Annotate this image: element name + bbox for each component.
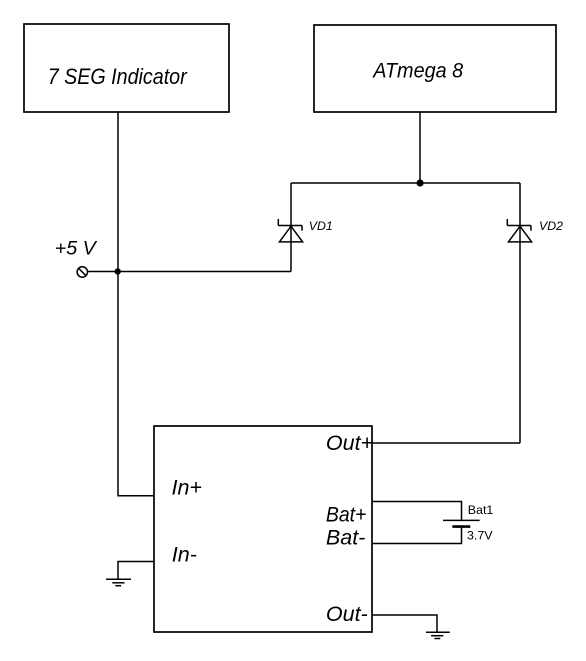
wire: top rail [291, 182, 520, 184]
wire: Out+ pin to VD2 branch [372, 442, 520, 444]
junction dot at VD1 apex [289, 225, 292, 228]
zener diode VD2 [507, 219, 531, 242]
junction dot at VD2 apex [518, 225, 521, 228]
node junction at top rail [417, 179, 424, 186]
wire: Out- pin to ground [372, 615, 437, 632]
node junction at +5V rail [115, 268, 121, 274]
wire: junction down then right to In+ pin [118, 272, 154, 496]
svg-text:ATmega 8: ATmega 8 [371, 59, 463, 83]
svg-text:VD2: VD2 [539, 219, 563, 233]
svg-text:In+: In+ [172, 476, 203, 500]
wire: +5V rail from terminal to VD1 branch [87, 271, 291, 273]
wire: 7SEG box bottom to +5V junction [117, 112, 119, 272]
box converter U1 [154, 426, 372, 632]
ground left (In-) [106, 579, 131, 586]
wire: In- pin to ground [118, 562, 154, 580]
svg-text:3.7V: 3.7V [467, 529, 493, 543]
box ATmega 8 [314, 25, 556, 112]
svg-text:Out-: Out- [326, 602, 368, 626]
svg-text:Bat-: Bat- [326, 525, 365, 549]
wire: Bat- pin to battery bottom [372, 527, 462, 544]
svg-text:Bat+: Bat+ [326, 502, 367, 526]
wire: VD1 branch vertical [290, 183, 292, 272]
svg-text:Bat1: Bat1 [468, 503, 494, 517]
svg-text:In-: In- [172, 543, 197, 567]
ground right (Out-) [426, 632, 450, 638]
svg-text:Out+: Out+ [326, 431, 373, 455]
svg-text:VD1: VD1 [309, 219, 333, 233]
zener diode VD1 [278, 219, 302, 242]
wire: VD2 branch vertical down to Out+ level [519, 183, 521, 443]
battery Bat1 plates [443, 520, 480, 526]
terminal +5V circle [77, 267, 87, 277]
wire: Bat+ pin to battery top [372, 502, 462, 521]
box 7 SEG Indicator [24, 24, 229, 112]
svg-text:+5 V: +5 V [55, 237, 98, 259]
wire: ATmega box bottom to top rail junction [419, 112, 421, 183]
svg-text:7 SEG Indicator: 7 SEG Indicator [48, 64, 188, 89]
